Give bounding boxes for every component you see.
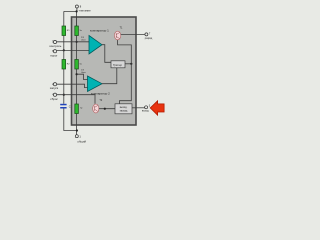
terminal pin2 запуск <box>53 83 56 86</box>
svg-text:5к: 5к <box>80 64 82 66</box>
resistor R4 5k divider <box>75 60 82 70</box>
node 1/3 Ucc <box>76 73 78 75</box>
op-amp comparator2 <box>88 76 111 96</box>
resistor R5 5k divider <box>75 104 83 114</box>
node R1-R2 junction <box>63 49 65 51</box>
resistor R3 5k divider <box>75 26 82 36</box>
transistor T1 discharge <box>114 27 123 40</box>
wire comparator2 output to trigger <box>102 68 117 84</box>
svg-text:Uпит: Uпит <box>81 39 86 41</box>
capacitor C <box>60 104 71 109</box>
node ground junction <box>76 129 78 131</box>
node Vcc junction <box>76 10 78 12</box>
svg-text:выход.: выход. <box>120 106 128 109</box>
wire trigger output <box>125 63 131 65</box>
terminal pin7 разряд <box>145 33 148 36</box>
wire outer column top <box>63 11 65 26</box>
svg-text:5к: 5к <box>80 108 82 110</box>
terminal pin6 порог <box>53 50 56 53</box>
resistor R2 <box>62 60 70 70</box>
wire 1/3 node to comparator2 <box>77 74 88 79</box>
svg-text:5к: 5к <box>80 30 82 32</box>
svg-text:+питание: +питание <box>79 9 92 13</box>
terminal pin8 +питание <box>75 5 78 8</box>
wire R2 to C <box>63 69 65 104</box>
wire T1 collector to pin7 <box>121 33 145 35</box>
terminal pin3 выход <box>145 106 148 109</box>
svg-text:общий: общий <box>77 139 86 143</box>
svg-text:сброс: сброс <box>50 97 58 101</box>
wire R5 to IC bottom <box>76 114 78 126</box>
wire trigger to T1 base <box>118 40 132 64</box>
wire порог to comparator1 <box>57 50 89 52</box>
terminal pin4 сброс <box>53 93 56 96</box>
svg-text:C: C <box>69 106 71 109</box>
wire IC ground lead <box>76 125 78 135</box>
node R2-C junction <box>63 94 65 96</box>
wire R1 to R2 <box>63 36 65 60</box>
wire Vcc rail <box>64 8 77 26</box>
terminal pin1 общий <box>75 135 78 138</box>
op-amp comparator1 <box>89 29 109 54</box>
trigger box <box>111 61 125 68</box>
output arrow annotation <box>150 101 164 115</box>
wire divider column top <box>76 17 78 26</box>
node T2 output junction <box>104 108 106 110</box>
wire comparator1 output to trigger <box>102 45 111 63</box>
svg-text:запуск: запуск <box>50 86 59 90</box>
terminal pin5 контроль <box>53 40 56 43</box>
wire C to ground rail <box>64 109 77 131</box>
output stage box <box>115 104 132 114</box>
transistor T2 reset <box>93 99 103 113</box>
wire R3 to R4 <box>76 36 78 60</box>
wire R4 to node <box>76 69 78 104</box>
resistor R1 <box>62 26 70 36</box>
svg-text:контроль: контроль <box>50 44 62 48</box>
svg-text:каскад: каскад <box>120 110 128 113</box>
wire trigger to output stage <box>120 64 132 104</box>
svg-text:разряд: разряд <box>145 38 153 40</box>
node trigger output junction <box>130 63 132 65</box>
wire запуск to comparator2 <box>57 84 88 87</box>
IC body U1 <box>72 17 137 125</box>
svg-text:компаратор 1: компаратор 1 <box>90 29 109 33</box>
wire T2 to output stage <box>99 108 115 110</box>
svg-text:порог: порог <box>50 53 57 57</box>
svg-text:выход: выход <box>142 110 149 112</box>
wire output stage to pin3 <box>132 107 145 109</box>
node 2/3 Ucc <box>76 41 78 43</box>
wire сброс to transistor T2 <box>57 95 95 104</box>
svg-text:компаратор 2: компаратор 2 <box>91 92 110 96</box>
svg-text:Триггер: Триггер <box>113 64 122 67</box>
wire контроль to comparator1 <box>57 41 89 43</box>
